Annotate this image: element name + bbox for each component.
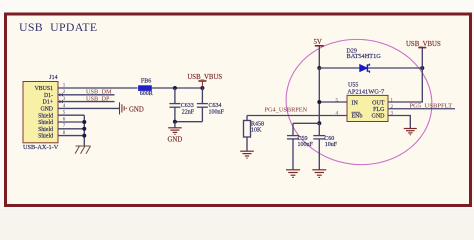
junction IN xyxy=(317,100,321,104)
svg-text:USB-AX-1-V: USB-AX-1-V xyxy=(23,144,59,151)
wire USB_DP stub xyxy=(58,101,115,103)
wire cap bottoms rail xyxy=(175,121,203,123)
capacitor C59 xyxy=(287,123,299,170)
wire down to ground xyxy=(174,122,176,128)
junction rail USB_VBUS xyxy=(200,86,204,90)
svg-text:C633: C633 xyxy=(181,103,194,109)
svg-text:USB UPDATE: USB UPDATE xyxy=(19,20,97,34)
wire GND pin3 xyxy=(388,116,410,129)
wire shield pin5 xyxy=(58,114,84,116)
connector J14 body xyxy=(23,82,58,143)
wire shield pin8 xyxy=(58,135,84,137)
chassis ground xyxy=(75,146,91,154)
svg-text:10uF: 10uF xyxy=(325,142,338,148)
svg-text:AP2141WG-7: AP2141WG-7 xyxy=(347,89,385,96)
svg-text:BAT54HT1G: BAT54HT1G xyxy=(347,53,382,60)
wire shield pin7 xyxy=(58,128,84,130)
junction shield pin7 xyxy=(82,127,86,131)
power port USB_VBUS right xyxy=(406,41,441,68)
svg-text:GND: GND xyxy=(372,114,386,120)
svg-text:5V: 5V xyxy=(314,39,322,46)
svg-text:USB_DP: USB_DP xyxy=(86,96,110,103)
svg-text:PG5_USBPFLT: PG5_USBPFLT xyxy=(410,102,453,109)
regulator U55 body xyxy=(347,95,388,121)
junction cap feed xyxy=(317,121,321,125)
svg-text:FB6: FB6 xyxy=(141,78,151,84)
svg-text:22nF: 22nF xyxy=(182,109,195,115)
svg-text:FLG: FLG xyxy=(373,107,385,113)
junction 5V rail xyxy=(317,66,321,70)
ground under C59 xyxy=(286,170,300,178)
svg-text:10K: 10K xyxy=(251,127,262,133)
diode D29 xyxy=(360,64,370,73)
svg-text:OUT: OUT xyxy=(372,100,385,106)
capacitor C60 xyxy=(313,123,325,170)
svg-text:VBUS1: VBUS1 xyxy=(35,86,53,92)
capacitor C633 xyxy=(169,88,180,122)
svg-text:GND: GND xyxy=(168,137,183,144)
junction shield pin6 xyxy=(82,120,86,124)
ground under C633 xyxy=(168,128,182,135)
svg-text:Shield: Shield xyxy=(38,127,53,133)
resistor R458 xyxy=(244,116,251,152)
wire USB_DM stub xyxy=(58,94,115,96)
svg-text:GND: GND xyxy=(129,106,144,113)
sheet border frame xyxy=(6,14,471,206)
junction diode USB_VBUS xyxy=(420,66,424,70)
wire shield pin6 xyxy=(58,121,84,123)
ground under C60 xyxy=(312,170,326,178)
svg-text:PG4_USBRPEN: PG4_USBRPEN xyxy=(265,107,308,114)
junction cap bottom xyxy=(173,120,177,124)
svg-text:D1-: D1- xyxy=(44,93,53,99)
wire FLG PG5 xyxy=(388,108,455,110)
ground under chip xyxy=(404,129,417,135)
ferrite bead FB6 xyxy=(139,86,152,91)
power port USB_VBUS left xyxy=(198,81,206,88)
wire VBUS1 pin1 to FB6 xyxy=(58,87,138,89)
wire IN pin xyxy=(319,101,347,103)
input arrow pin3 xyxy=(58,100,63,103)
input arrow pin2 xyxy=(58,93,63,96)
wire 5V vertical to caps xyxy=(318,68,320,123)
svg-text:C634: C634 xyxy=(209,103,222,109)
wire GND pin4 xyxy=(58,107,120,109)
wire FB6 to USB_VBUS rail xyxy=(151,87,202,89)
ground under R458 xyxy=(240,151,254,158)
svg-text:600R: 600R xyxy=(140,91,153,97)
svg-text:IN: IN xyxy=(352,100,359,106)
junction rail C633 xyxy=(173,86,177,90)
svg-text:J14: J14 xyxy=(49,75,57,81)
capacitor C634 xyxy=(197,88,208,122)
wire diode rail xyxy=(319,67,422,69)
wire shield bus vertical xyxy=(83,115,85,146)
pin name ENb xyxy=(352,112,363,119)
wire cap feed horizontal xyxy=(293,122,319,124)
svg-text:100nF: 100nF xyxy=(298,142,314,148)
svg-text:100nF: 100nF xyxy=(209,109,225,115)
svg-text:Shield: Shield xyxy=(38,134,53,140)
svg-text:Shield: Shield xyxy=(38,120,53,126)
svg-text:D1+: D1+ xyxy=(43,100,53,106)
junction shield pin8 xyxy=(82,134,86,138)
svg-text:ENb: ENb xyxy=(352,114,363,120)
power ground bars at pin4 xyxy=(120,102,127,114)
wire ENb PG4 xyxy=(247,115,347,117)
ellipse highlight circle xyxy=(280,32,438,172)
svg-text:USB_VBUS: USB_VBUS xyxy=(187,74,222,81)
wire OUT to USB_VBUS xyxy=(388,68,422,102)
power port 5V xyxy=(314,39,324,68)
svg-text:GND: GND xyxy=(40,107,53,113)
svg-text:Shield: Shield xyxy=(38,113,53,119)
svg-text:USB_VBUS: USB_VBUS xyxy=(406,41,441,48)
